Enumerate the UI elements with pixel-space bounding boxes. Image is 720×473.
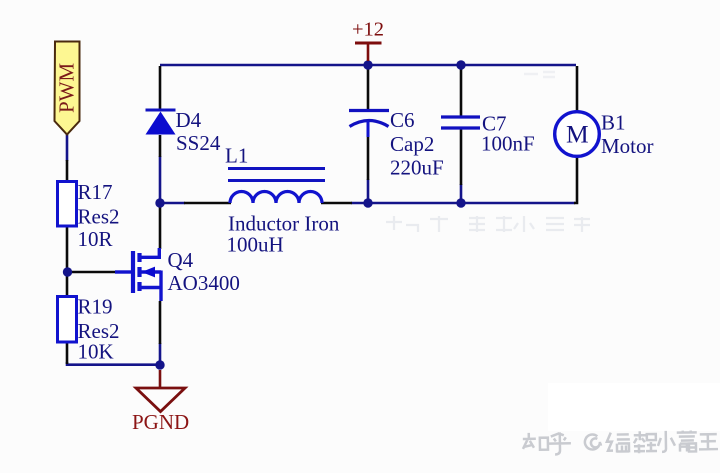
pin C7 top: [460, 66, 463, 116]
wire C7 bottom: [460, 184, 463, 199]
svg-text:Res2: Res2: [78, 205, 120, 229]
王: [699, 434, 718, 449]
svg-text:Cap2: Cap2: [390, 132, 434, 156]
pin Q4 drain: [159, 206, 162, 249]
知: [523, 433, 548, 450]
svg-text:PWM: PWM: [55, 63, 79, 114]
svg-text:10K: 10K: [78, 340, 114, 364]
wire C6 bottom: [367, 179, 370, 199]
svg-text:100uH: 100uH: [227, 233, 284, 257]
svg-text:AO3400: AO3400: [168, 271, 240, 295]
pin B1 motor top: [576, 66, 579, 111]
wire Q4 source to ground node: [159, 343, 162, 362]
capacitor C6 (polarized Cap2): [349, 108, 444, 180]
pin R19 bottom: [66, 342, 69, 364]
svg-text:SS24: SS24: [176, 131, 221, 155]
pin Q4 gate: [72, 271, 115, 274]
wire top rail +12: [160, 64, 576, 67]
pin C6 bottom: [367, 136, 370, 180]
svg-text:L1: L1: [225, 144, 248, 168]
watermark 知乎 @编程小霸王: [523, 430, 718, 455]
wire D4 bottom to node: [159, 156, 162, 199]
svg-text:M: M: [566, 120, 589, 149]
port PWM: [55, 42, 80, 135]
capacitor C7: [441, 112, 535, 156]
wire PWM flag to R17: [66, 134, 69, 161]
white patch bottom right: [548, 383, 720, 431]
svg-text:+12: +12: [352, 19, 384, 41]
编: [607, 432, 630, 452]
pin L1 left: [184, 202, 231, 205]
wire L1 right to bottom rail to motor: [351, 202, 575, 205]
wire R19 bottom to ground node: [67, 362, 157, 365]
junction node gate (R17/R19): [63, 267, 72, 276]
小: [658, 431, 675, 452]
junction dot bottom rail C7: [456, 198, 465, 207]
svg-text:100nF: 100nF: [481, 132, 535, 156]
pin C7 bottom: [460, 129, 463, 185]
pin R19 top: [66, 276, 69, 297]
程: [634, 431, 657, 453]
pin D4 anode bottom: [159, 135, 162, 157]
inductor L1: [225, 144, 340, 257]
junction node ground: [155, 360, 164, 369]
power symbol +12: [352, 19, 384, 62]
svg-text:Motor: Motor: [601, 134, 654, 158]
pin Q4 source lower: [159, 301, 162, 344]
svg-text:Q4: Q4: [168, 248, 194, 272]
pin C6 top: [367, 66, 370, 110]
svg-text:220uF: 220uF: [390, 156, 444, 180]
@: [585, 434, 602, 449]
junction dot top rail C6: [363, 60, 372, 69]
junction node SW (D4/L1/Q4 drain): [155, 198, 164, 207]
乎: [549, 432, 571, 454]
svg-text:10R: 10R: [78, 227, 113, 251]
pin D4 cathode top: [159, 66, 162, 109]
svg-text:D4: D4: [176, 108, 202, 132]
svg-text:R17: R17: [78, 180, 113, 204]
junction dot bottom rail C6: [363, 198, 372, 207]
pin R17 top: [66, 160, 69, 182]
ground PGND: [132, 370, 189, 434]
watermark faint smudge top: [524, 72, 555, 77]
pin B1 motor bottom: [574, 157, 577, 203]
transistor Q4 AO3400 (N-MOSFET): [115, 248, 240, 301]
svg-text:R19: R19: [78, 295, 113, 319]
watermark faint middle: [386, 216, 590, 232]
diode D4 SS24: [146, 108, 221, 155]
pin R17 bottom: [66, 226, 69, 268]
resistor R19: [58, 295, 120, 364]
svg-text:C6: C6: [390, 108, 415, 132]
svg-text:B1: B1: [601, 111, 626, 135]
霸: [677, 430, 697, 451]
pin L1 right: [321, 202, 352, 205]
motor B1: [555, 111, 654, 159]
wire node to L1 left: [163, 202, 185, 205]
svg-text:PGND: PGND: [132, 410, 189, 434]
resistor R17: [58, 180, 120, 251]
junction dot top rail C7: [456, 60, 465, 69]
